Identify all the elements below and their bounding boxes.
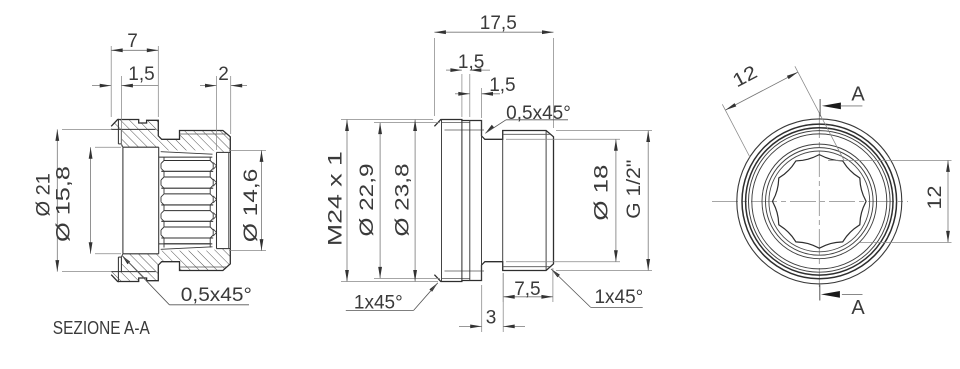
svg-text:SEZIONE A-A: SEZIONE A-A — [53, 317, 151, 338]
side view: G1/2 thread start — [502, 131, 504, 271]
end view: 12-point internal spline profile — [773, 155, 867, 249]
section: counterbore O21 root lines — [111, 129, 155, 271]
side view: band edge line — [461, 120, 463, 282]
section: right face recess — [217, 152, 231, 248]
dimension 12 across flats (diagonal) — [722, 62, 844, 160]
dimension 7 (section top) — [111, 31, 158, 117]
side view: M24 thread root lines — [442, 123, 470, 279]
svg-text:12: 12 — [925, 186, 946, 210]
section: spline entry face — [158, 147, 160, 254]
section: bore O15.8 lines — [123, 147, 159, 254]
side view: outer profile — [434, 120, 553, 282]
svg-text:2: 2 — [218, 64, 229, 85]
end view: centerline vertical — [818, 112, 820, 287]
end view: centerline horizontal — [712, 200, 908, 202]
svg-text:Ø 23,8: Ø 23,8 — [393, 164, 414, 237]
svg-text:1,5: 1,5 — [458, 52, 484, 73]
section: counterbore bottom face — [118, 129, 121, 271]
dimension 3 (neck width) — [459, 273, 525, 332]
svg-text:M24 x 1: M24 x 1 — [325, 151, 346, 246]
side view: collar face line — [481, 121, 483, 281]
dimension 2 (recess depth) — [200, 64, 247, 150]
svg-text:7,5: 7,5 — [514, 279, 540, 300]
side view: G1/2 chamfer boundary — [545, 131, 547, 271]
svg-text:Ø 15,8: Ø 15,8 — [54, 166, 75, 242]
svg-text:Ø 18: Ø 18 — [592, 165, 613, 221]
section view A-A: outer profile of part — [111, 120, 230, 282]
svg-text:0,5x45°: 0,5x45° — [181, 285, 252, 306]
section view A-A: hatched cut area (lower) — [111, 249, 230, 282]
dimension G 1/2 (pipe thread) — [556, 131, 652, 271]
section: internal 12-point spline teeth — [159, 152, 217, 250]
section: face chamfer boundary (top and bottom stubs) — [117, 119, 119, 282]
leader 1x45 right (G1/2 chamfer) — [551, 269, 643, 308]
svg-text:Ø 14,6: Ø 14,6 — [241, 169, 262, 243]
dimension 1,5 first (thread relief) — [446, 52, 490, 117]
dimension O14,6 (spline dia) — [229, 150, 266, 250]
side view: M24 chamfer boundary — [441, 120, 443, 282]
svg-text:1,5: 1,5 — [489, 75, 515, 96]
dimension O22,9 (thread root dia) — [357, 123, 440, 279]
leader 0,5x45 (collar chamfer) — [485, 103, 571, 133]
leader 0,5x45 (section chamfer) — [122, 255, 252, 306]
svg-text:G 1/2": G 1/2" — [624, 160, 645, 219]
section plane mark A (bottom) — [820, 285, 866, 319]
section: G1/2 thread root lines — [180, 134, 227, 267]
dimension 1,5 second (collar width) — [455, 75, 516, 118]
dimension 12 across flats (vertical) — [828, 160, 952, 242]
section plane mark A (top) — [820, 84, 865, 117]
svg-text:0,5x45°: 0,5x45° — [506, 103, 571, 124]
svg-text:7: 7 — [127, 31, 138, 52]
svg-text:A: A — [851, 84, 865, 106]
side view: G1/2 thread root lines — [503, 134, 550, 266]
section: bore start face — [122, 147, 124, 254]
svg-text:12: 12 — [730, 62, 761, 92]
svg-text:1x45°: 1x45° — [594, 287, 643, 308]
section view A-A: hatched cut area (upper) — [111, 120, 230, 153]
side view: relief diameter lines — [445, 130, 485, 271]
svg-text:3: 3 — [486, 308, 497, 329]
dimension 17,5 (overall length) — [434, 13, 553, 128]
label SEZIONE A-A — [53, 317, 151, 338]
dimension 1,5 (counterbore depth) — [92, 64, 158, 147]
dimension 7,5 (G thread length) — [503, 268, 553, 302]
svg-text:17,5: 17,5 — [480, 13, 517, 34]
dimension M24 x 1 — [325, 120, 438, 282]
svg-text:Ø 22,9: Ø 22,9 — [357, 164, 378, 237]
svg-text:1x45°: 1x45° — [354, 293, 403, 314]
svg-text:Ø 21: Ø 21 — [33, 173, 54, 217]
end view: concentric circles (threads, bores, chamfers) — [737, 119, 902, 284]
dimension O15,8 (bore dia) — [54, 147, 121, 254]
dimension O23,8 (thread crest dia) — [393, 120, 418, 282]
svg-text:A: A — [851, 297, 865, 319]
dimension O21 (counterbore dia) — [33, 129, 111, 271]
section: counterbore 0.5x45 chamfer — [121, 144, 123, 257]
svg-text:1,5: 1,5 — [128, 64, 154, 85]
dimension O18 (neck dia) — [506, 139, 620, 261]
leader 1x45 left (M24 chamfer) — [346, 283, 438, 314]
side view: band A/collar boundary — [469, 121, 471, 281]
